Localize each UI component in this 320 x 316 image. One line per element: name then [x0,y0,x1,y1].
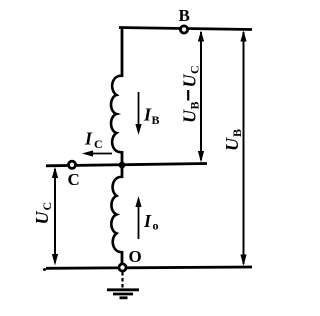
svg-text:C: C [188,65,202,74]
ground stem (dashed) [121,272,123,288]
svg-text:B: B [230,129,244,137]
label UB (rotated) [222,129,244,151]
svg-text:C: C [68,170,80,189]
terminal C (open circle) [68,161,75,168]
wire left vertical drop from top rail [121,27,124,78]
svg-text:I: I [143,211,152,231]
svg-text:B: B [152,113,160,127]
svg-text:O: O [129,247,142,266]
svg-text:o: o [153,219,159,233]
wire middle horizontal C rail [46,164,207,166]
wire from top winding to middle node [121,151,124,167]
inductor L2 (bottom winding) [111,177,122,252]
svg-text:U: U [222,137,242,151]
ground bar 3 [120,296,128,299]
svg-text:U: U [180,74,200,88]
node junction dot at middle tap [119,162,126,169]
terminal O (open circle) [119,264,126,271]
wire top horizontal B rail [119,28,252,30]
svg-text:B: B [179,6,190,25]
svg-text:U: U [32,211,52,225]
current arrow IB (downward) [138,92,140,128]
svg-text:C: C [94,137,103,151]
label UC (rotated) [32,202,54,225]
current arrow Io (upward) [138,203,140,239]
minus sign of UB-UC label (rotated dash) [187,90,189,101]
dimension line UC (left, double arrow) [54,169,56,263]
wire bottom winding to terminal O [121,251,124,263]
current arrow IC (leftward) [88,153,112,155]
inductor L1 (top winding) [111,76,122,152]
svg-text:C: C [40,202,54,211]
svg-text:B: B [188,101,202,109]
dimension line UB-UC (double arrow) [200,32,202,160]
label UB-UC (rotated) [180,65,202,123]
svg-text:U: U [180,109,200,123]
terminal B (open circle) [180,26,187,33]
dimension line UB (right, double arrow) [243,32,245,264]
ground bar 2 [113,293,133,296]
wire middle node to bottom winding [121,164,124,178]
wire bottom horizontal rail [46,267,252,268]
wire tick at left end of bottom rail [43,268,46,271]
svg-text:I: I [84,129,93,149]
ground bar 1 [107,288,139,291]
